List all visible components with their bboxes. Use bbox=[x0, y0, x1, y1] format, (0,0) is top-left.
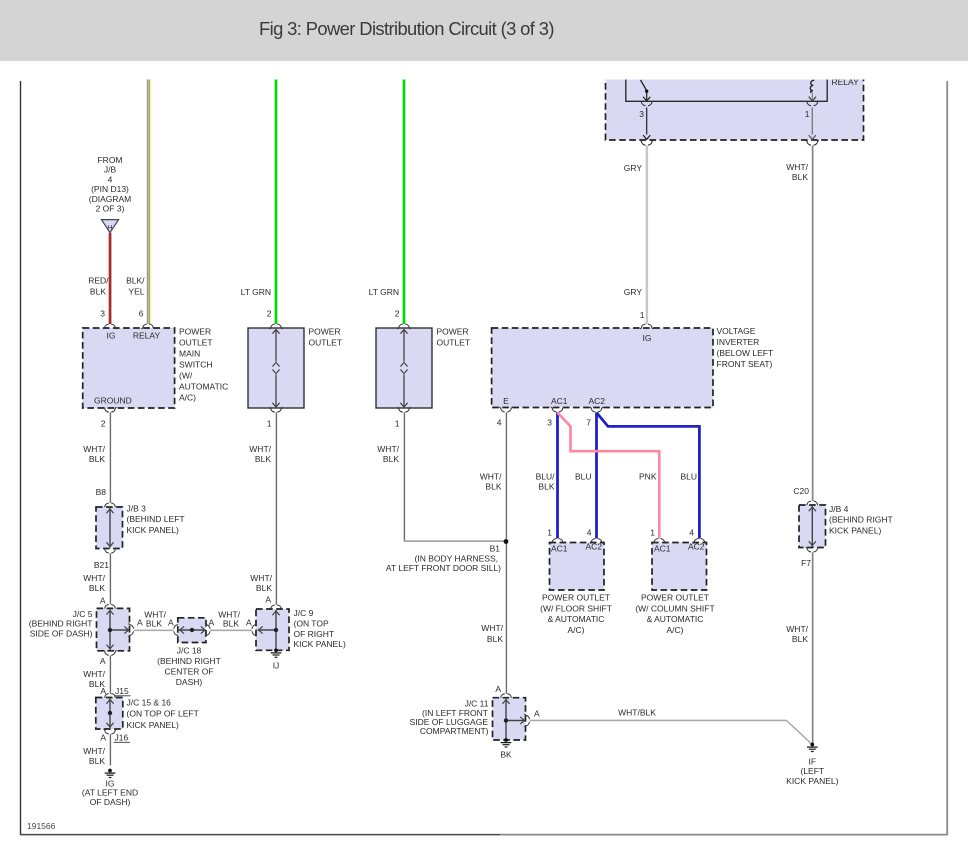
relay pin 3 exit connector bbox=[640, 140, 653, 145]
wire WHT/BLK J/B 3 to J/C 5 bbox=[109, 553, 110, 604]
svg-text:RELAY: RELAY bbox=[832, 77, 860, 87]
wire color label WHT/BLK (col1 lower) bbox=[83, 669, 105, 689]
pin A / J16 below J/C 15&16 bbox=[100, 729, 130, 743]
svg-text:LT GRN: LT GRN bbox=[241, 287, 271, 297]
svg-text:4: 4 bbox=[689, 528, 694, 538]
svg-text:MAIN: MAIN bbox=[179, 349, 200, 359]
svg-text:POWER OUTLET: POWER OUTLET bbox=[542, 593, 610, 603]
svg-text:WHT/: WHT/ bbox=[83, 746, 105, 756]
ground IJ bbox=[271, 648, 282, 670]
svg-text:BLU: BLU bbox=[575, 472, 592, 482]
svg-text:B21: B21 bbox=[94, 560, 109, 570]
svg-text:AC1: AC1 bbox=[551, 544, 568, 554]
svg-text:4: 4 bbox=[108, 174, 113, 184]
svg-text:BLK: BLK bbox=[89, 583, 105, 593]
wire color label BLU (1) bbox=[575, 472, 592, 482]
svg-text:A/C): A/C) bbox=[568, 625, 585, 635]
wire color label WHT/BLK (col1) bbox=[83, 444, 105, 464]
svg-text:AUTOMATIC: AUTOMATIC bbox=[179, 382, 228, 392]
power outlet 3 bbox=[376, 328, 432, 408]
svg-text:A: A bbox=[246, 618, 252, 628]
ground BK bbox=[500, 738, 512, 759]
wire color label BLU (2) bbox=[680, 472, 697, 482]
svg-text:GRY: GRY bbox=[624, 287, 643, 297]
svg-text:A/C): A/C) bbox=[179, 393, 196, 403]
wire color label PNK bbox=[639, 472, 657, 482]
pin A into J/C 5 bbox=[100, 596, 117, 610]
wire WHT/BLK inverter E to J/C 11 bbox=[505, 412, 506, 693]
svg-text:AT LEFT FRONT DOOR SILL): AT LEFT FRONT DOOR SILL) bbox=[386, 563, 501, 573]
svg-text:FRONT SEAT): FRONT SEAT) bbox=[717, 359, 773, 369]
wire PNK inverter AC1 to power outlet 5 pin 1 bbox=[558, 413, 660, 539]
svg-text:BLK: BLK bbox=[792, 634, 808, 644]
pin 2 of power outlet 3 bbox=[395, 309, 411, 330]
svg-text:OUTLET: OUTLET bbox=[437, 338, 471, 348]
svg-text:WHT/: WHT/ bbox=[377, 444, 399, 454]
power outlet 2 bbox=[248, 328, 304, 408]
wire color label WHT/BLK (h1) bbox=[144, 610, 166, 629]
power outlet 4 pin 1 bbox=[547, 528, 564, 544]
svg-text:(BELOW LEFT: (BELOW LEFT bbox=[717, 348, 774, 358]
connector label C20 bbox=[793, 486, 809, 496]
svg-text:A: A bbox=[209, 618, 215, 628]
svg-text:WHT/: WHT/ bbox=[249, 444, 271, 454]
svg-text:BLK: BLK bbox=[256, 583, 272, 593]
wire WHT/BLK J/B 4 to ground IF bbox=[812, 552, 813, 744]
wire color label RED/BLK bbox=[88, 276, 109, 297]
junction connector J/C 15 & 16 bbox=[96, 698, 123, 730]
svg-text:BLK: BLK bbox=[89, 454, 105, 464]
svg-text:A: A bbox=[100, 596, 106, 606]
svg-text:KICK PANEL): KICK PANEL) bbox=[127, 720, 179, 730]
junction block J/B 4 bbox=[799, 501, 826, 548]
svg-text:BLK: BLK bbox=[792, 172, 808, 182]
svg-text:(W/ FLOOR SHIFT: (W/ FLOOR SHIFT bbox=[540, 603, 612, 613]
svg-text:BLK: BLK bbox=[90, 287, 106, 297]
svg-text:3: 3 bbox=[639, 109, 644, 119]
pin A into J/C 11 bbox=[495, 684, 512, 699]
J/C 18 label bbox=[157, 645, 221, 687]
svg-text:(ON TOP: (ON TOP bbox=[294, 618, 329, 628]
svg-text:FROM: FROM bbox=[97, 155, 122, 165]
svg-text:J/B 3: J/B 3 bbox=[127, 504, 147, 514]
voltage inverter bbox=[492, 328, 713, 408]
svg-text:1: 1 bbox=[640, 310, 645, 320]
wire WHT/BLK to ground IG bbox=[109, 734, 110, 765]
wire BLU inverter AC2 to power outlet 4 pin 4 bbox=[595, 412, 598, 538]
connector A right of J/C 11 bbox=[525, 709, 541, 728]
wire color label WHT/BLK (col3 lower) bbox=[250, 573, 272, 593]
svg-text:YEL: YEL bbox=[128, 287, 144, 297]
svg-text:F7: F7 bbox=[801, 558, 811, 568]
svg-text:OF DASH): OF DASH) bbox=[90, 797, 131, 807]
svg-text:(ON TOP OF LEFT: (ON TOP OF LEFT bbox=[127, 709, 199, 719]
svg-text:BLK: BLK bbox=[146, 619, 162, 629]
wire color label WHT/BLK (horizontal) bbox=[618, 708, 656, 718]
svg-text:J16: J16 bbox=[115, 733, 129, 743]
J/C 9 label bbox=[294, 608, 346, 649]
svg-text:POWER: POWER bbox=[309, 327, 341, 337]
svg-text:DASH): DASH) bbox=[176, 677, 203, 687]
svg-text:1: 1 bbox=[395, 419, 400, 429]
svg-text:WHT/BLK: WHT/BLK bbox=[618, 708, 656, 718]
svg-text:OUTLET: OUTLET bbox=[309, 338, 343, 348]
svg-text:A: A bbox=[168, 618, 174, 628]
svg-text:KICK PANEL): KICK PANEL) bbox=[294, 639, 346, 649]
J/C 5 label bbox=[29, 609, 93, 638]
svg-text:& AUTOMATIC: & AUTOMATIC bbox=[647, 614, 704, 624]
node B1 label bbox=[386, 544, 501, 574]
svg-text:KICK PANEL): KICK PANEL) bbox=[127, 525, 179, 535]
svg-text:BLK: BLK bbox=[223, 619, 239, 629]
svg-text:OF RIGHT: OF RIGHT bbox=[294, 629, 335, 639]
J/B 4 label bbox=[829, 504, 893, 535]
svg-text:POWER: POWER bbox=[437, 327, 469, 337]
svg-text:BLK: BLK bbox=[485, 482, 501, 492]
wire GRY from relay pin 3 to voltage inverter pin 1 bbox=[646, 145, 648, 324]
pin 3 of main switch bbox=[100, 309, 116, 330]
svg-text:AC2: AC2 bbox=[589, 396, 606, 406]
wire WHT/BLK power outlet 2 to J/C 9 bbox=[267, 407, 283, 605]
svg-text:WHT/: WHT/ bbox=[83, 669, 105, 679]
svg-text:J/C 18: J/C 18 bbox=[177, 645, 202, 655]
wire color label BLK/YEL bbox=[126, 276, 145, 297]
svg-text:BLK: BLK bbox=[255, 454, 271, 464]
relay K1 (power outlet relay, top, clipped by frame) bbox=[606, 55, 864, 140]
svg-text:(LEFT: (LEFT bbox=[800, 766, 824, 776]
svg-text:J/B: J/B bbox=[104, 165, 117, 175]
svg-text:C20: C20 bbox=[793, 486, 809, 496]
svg-text:POWER: POWER bbox=[179, 327, 211, 337]
wire color label LT GRN (2) bbox=[369, 287, 399, 297]
svg-text:BLK: BLK bbox=[487, 634, 503, 644]
svg-text:A: A bbox=[100, 656, 106, 666]
svg-text:BLK/: BLK/ bbox=[126, 276, 145, 286]
svg-text:2: 2 bbox=[267, 309, 272, 319]
svg-text:Fig 3: Power Distribution Circ: Fig 3: Power Distribution Circuit (3 of … bbox=[259, 18, 554, 39]
header band bbox=[0, 0, 968, 61]
wire color label WHT/BLK (right top) bbox=[786, 162, 808, 182]
svg-text:A: A bbox=[265, 595, 271, 605]
svg-text:J/B 4: J/B 4 bbox=[829, 504, 849, 514]
svg-text:6: 6 bbox=[139, 309, 144, 319]
relay switch contact bbox=[641, 80, 651, 101]
relay pin 1 exit connector bbox=[806, 140, 819, 145]
svg-text:1: 1 bbox=[650, 528, 655, 538]
svg-text:GROUND: GROUND bbox=[94, 396, 132, 406]
wire color label GRY (lower) bbox=[624, 287, 643, 297]
svg-text:E: E bbox=[503, 396, 509, 406]
ground IF bbox=[786, 743, 838, 786]
svg-text:1: 1 bbox=[547, 528, 552, 538]
svg-text:1: 1 bbox=[267, 419, 272, 429]
svg-text:2: 2 bbox=[101, 419, 106, 429]
svg-text:J/C 5: J/C 5 bbox=[73, 609, 93, 619]
inverter pin 1 (top) bbox=[640, 310, 654, 329]
node B1 junction bbox=[504, 539, 509, 544]
label FROM J/B 4 (PIN D13) (DIAGRAM 2 OF 3) bbox=[89, 155, 132, 214]
svg-text:KICK PANEL): KICK PANEL) bbox=[786, 776, 838, 786]
connector A left of J/C 9 bbox=[246, 618, 257, 637]
inverter pin 4 (E) bbox=[497, 407, 513, 428]
wire WHT/BLK J/C 18 to J/C 9 bbox=[210, 629, 252, 630]
power outlet 4 (W/ floor shift) bbox=[550, 542, 605, 591]
wire BLK/YEL (olive) from top to pin 6 bbox=[148, 60, 151, 324]
J/C 11 label bbox=[410, 699, 489, 736]
svg-text:(W/: (W/ bbox=[179, 371, 193, 381]
wire LT GRN 1 from top to power outlet 2 bbox=[275, 60, 278, 324]
svg-text:SWITCH: SWITCH bbox=[179, 360, 213, 370]
power outlet main switch (W/ AUTOMATIC A/C) bbox=[83, 328, 175, 408]
svg-text:RED/: RED/ bbox=[88, 276, 109, 286]
power outlet 5 pin 4 bbox=[689, 528, 706, 544]
connector label B21 bbox=[94, 548, 117, 570]
svg-text:1: 1 bbox=[805, 109, 810, 119]
wire color label LT GRN (1) bbox=[241, 287, 271, 297]
power outlet 4 pin 4 bbox=[587, 528, 603, 544]
svg-text:(DIAGRAM: (DIAGRAM bbox=[89, 194, 132, 204]
svg-text:PNK: PNK bbox=[639, 472, 657, 482]
svg-text:AC1: AC1 bbox=[551, 396, 568, 406]
inverter label bbox=[717, 326, 774, 369]
power outlet 3 label bbox=[437, 327, 471, 348]
wire BLU inverter AC2 to power outlet 5 pin 4 bbox=[597, 413, 700, 539]
svg-text:IF: IF bbox=[809, 757, 817, 767]
svg-text:GRY: GRY bbox=[624, 163, 643, 173]
wire color label WHT/BLK (col3 upper) bbox=[249, 444, 271, 464]
svg-text:4: 4 bbox=[587, 528, 592, 538]
svg-text:3: 3 bbox=[547, 418, 552, 428]
svg-text:2: 2 bbox=[395, 309, 400, 319]
svg-text:(BEHIND LEFT: (BEHIND LEFT bbox=[127, 514, 185, 524]
svg-text:(IN BODY HARNESS,: (IN BODY HARNESS, bbox=[415, 553, 498, 563]
wire color label WHT/BLK (h2) bbox=[218, 610, 240, 629]
svg-text:B1: B1 bbox=[490, 544, 501, 554]
svg-text:2 OF 3): 2 OF 3) bbox=[96, 204, 125, 214]
wire color label WHT/BLK (right lower) bbox=[786, 624, 808, 644]
svg-text:IJ: IJ bbox=[273, 661, 280, 671]
connector A right of J/C 18 bbox=[205, 618, 215, 637]
svg-text:IG: IG bbox=[107, 331, 116, 341]
svg-text:CENTER OF: CENTER OF bbox=[164, 667, 213, 677]
svg-text:A: A bbox=[100, 733, 106, 743]
svg-text:KICK PANEL): KICK PANEL) bbox=[829, 525, 881, 535]
svg-text:BLK: BLK bbox=[538, 482, 554, 492]
figure number 191566 bbox=[27, 821, 56, 831]
wire LT GRN 2 from top to power outlet 3 bbox=[403, 60, 406, 324]
inverter pin 7 (AC2) bbox=[586, 407, 603, 428]
inverter pin 3 (AC1) bbox=[547, 407, 564, 428]
svg-text:A: A bbox=[534, 709, 540, 719]
junction connector J/C 5 bbox=[97, 608, 130, 650]
connector A below J/C 5 bbox=[100, 650, 117, 666]
pin A / J15 into J/C 15&16 bbox=[100, 686, 130, 699]
ground IG bbox=[82, 769, 138, 808]
svg-text:4: 4 bbox=[497, 418, 502, 428]
pin A into J/C 9 bbox=[265, 595, 282, 611]
relay pin 3 bbox=[639, 101, 653, 140]
svg-text:INVERTER: INVERTER bbox=[717, 337, 760, 347]
wire WHT/BLK J/C 5 to J/C 18 bbox=[134, 629, 174, 630]
svg-text:AC2: AC2 bbox=[586, 542, 603, 552]
svg-text:(W/ COLUMN SHIFT: (W/ COLUMN SHIFT bbox=[635, 603, 714, 613]
svg-text:WHT/: WHT/ bbox=[480, 472, 502, 482]
svg-text:A: A bbox=[137, 618, 143, 628]
power outlet 5 (W/ column shift) bbox=[652, 542, 707, 591]
wire BLU/BLK inverter AC1 to power outlet 4 pin 1 bbox=[556, 412, 559, 538]
svg-text:IG: IG bbox=[643, 333, 652, 343]
connector A right of J/C 5 bbox=[129, 618, 144, 637]
wire color label BLU/BLK bbox=[536, 472, 556, 492]
wire color label WHT/BLK (col4) bbox=[377, 444, 399, 464]
wire color label GRY (upper) bbox=[624, 163, 643, 173]
wire WHT/BLK power outlet 3 to node B1 bbox=[395, 407, 505, 541]
svg-text:3: 3 bbox=[100, 309, 105, 319]
power outlet 4 label bbox=[540, 593, 612, 635]
junction connector J/C 9 bbox=[256, 609, 289, 650]
triangle connector H bbox=[101, 220, 118, 233]
svg-text:B8: B8 bbox=[96, 487, 107, 497]
wire color label WHT/BLK (col5 lower) bbox=[481, 623, 503, 644]
svg-text:WHT/: WHT/ bbox=[481, 623, 503, 633]
svg-text:COMPARTMENT): COMPARTMENT) bbox=[420, 726, 489, 736]
svg-text:AC2: AC2 bbox=[688, 542, 705, 552]
svg-text:(PIN D13): (PIN D13) bbox=[91, 184, 129, 194]
power outlet 5 pin 1 bbox=[650, 528, 666, 544]
J/B 3 label bbox=[127, 504, 185, 535]
junction block J/B 3 bbox=[96, 503, 123, 549]
svg-text:OUTLET: OUTLET bbox=[179, 338, 213, 348]
svg-text:WHT/: WHT/ bbox=[83, 444, 105, 454]
svg-text:VOLTAGE: VOLTAGE bbox=[717, 326, 756, 336]
connector label B8 bbox=[96, 487, 107, 497]
wire WHT/BLK J/C 11 to ground IF bbox=[530, 720, 813, 745]
wire color label WHT/BLK (col1 mid) bbox=[83, 573, 105, 593]
svg-text:J/C 9: J/C 9 bbox=[294, 608, 314, 618]
svg-text:WHT/: WHT/ bbox=[786, 624, 808, 634]
connector A left of J/C 18 bbox=[168, 618, 179, 637]
svg-text:LT GRN: LT GRN bbox=[369, 287, 399, 297]
svg-text:AC1: AC1 bbox=[654, 544, 671, 554]
wire WHT/BLK main switch pin 2 to J/B 3 bbox=[101, 407, 117, 503]
svg-text:WHT/: WHT/ bbox=[250, 573, 272, 583]
svg-text:BK: BK bbox=[500, 750, 512, 760]
svg-text:RELAY: RELAY bbox=[133, 331, 161, 341]
svg-text:BLU/: BLU/ bbox=[536, 472, 556, 482]
svg-text:J/C 15 & 16: J/C 15 & 16 bbox=[127, 698, 172, 708]
connector label F7 bbox=[801, 547, 819, 568]
relay coil bbox=[809, 80, 816, 101]
svg-text:A/C): A/C) bbox=[667, 625, 684, 635]
svg-text:WHT/: WHT/ bbox=[786, 162, 808, 172]
svg-text:WHT/: WHT/ bbox=[83, 573, 105, 583]
svg-text:(BEHIND RIGHT: (BEHIND RIGHT bbox=[29, 619, 93, 629]
wire WHT/BLK J/C 5 to J/C 15&16 bbox=[109, 655, 110, 693]
svg-text:191566: 191566 bbox=[27, 821, 56, 831]
pin 6 of main switch bbox=[139, 309, 155, 330]
svg-text:POWER OUTLET: POWER OUTLET bbox=[641, 593, 709, 603]
svg-text:A: A bbox=[495, 684, 501, 694]
svg-text:& AUTOMATIC: & AUTOMATIC bbox=[548, 614, 605, 624]
J/C 15 & 16 label bbox=[127, 698, 199, 730]
relay pin 1 bbox=[805, 101, 819, 140]
svg-text:SIDE OF DASH): SIDE OF DASH) bbox=[30, 628, 93, 638]
wire color label WHT/BLK (col5 upper) bbox=[480, 472, 502, 492]
svg-text:J15: J15 bbox=[115, 686, 129, 696]
svg-text:(BEHIND RIGHT: (BEHIND RIGHT bbox=[157, 656, 221, 666]
svg-text:BLK: BLK bbox=[383, 454, 399, 464]
svg-text:(BEHIND RIGHT: (BEHIND RIGHT bbox=[829, 515, 893, 525]
svg-text:BLK: BLK bbox=[89, 756, 105, 766]
svg-text:H: H bbox=[107, 223, 112, 232]
power outlet 5 label bbox=[635, 593, 714, 635]
power outlet 2 label bbox=[309, 327, 343, 348]
wire WHT/BLK from relay pin 1 to J/B 4 bbox=[812, 145, 813, 501]
junction connector J/C 11 bbox=[493, 698, 526, 740]
main switch label bbox=[179, 327, 228, 403]
pin 2 of power outlet 2 bbox=[267, 309, 283, 330]
wire color label WHT/BLK (above IG ground) bbox=[83, 746, 105, 766]
svg-text:BLU: BLU bbox=[680, 472, 697, 482]
wire RED/BLK from triangle to pin 3 bbox=[110, 233, 111, 324]
junction connector J/C 18 bbox=[178, 618, 206, 643]
svg-text:7: 7 bbox=[586, 418, 591, 428]
